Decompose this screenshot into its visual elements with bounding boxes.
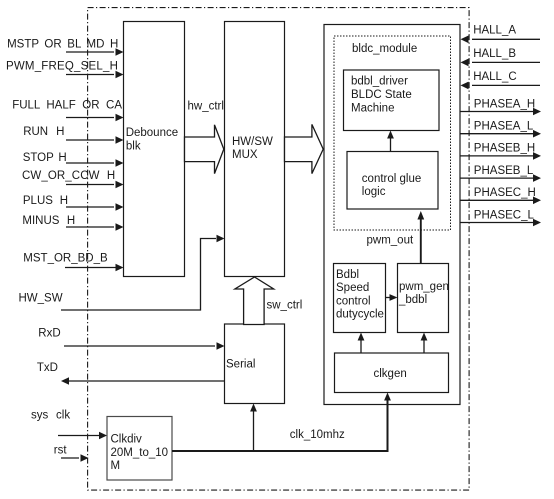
svg-text:PLUS H: PLUS H: [23, 195, 68, 207]
svg-text:MSTP OR BL MD H: MSTP OR BL MD H: [7, 39, 118, 51]
svg-text:STOP H: STOP H: [23, 152, 67, 164]
svg-text:pwm_out: pwm_out: [367, 235, 414, 247]
svg-text:HALL_A: HALL_A: [473, 25, 516, 37]
output PHASEC_H: [461, 187, 542, 204]
svg-text:RUN H: RUN H: [23, 126, 64, 138]
hollow block arrow sw_ctrl (Serial up to MUX): [235, 277, 302, 325]
output HALL_A: [461, 25, 541, 43]
wire clk_10mhz (Clkdiv to clkgen and Serial): [172, 393, 391, 452]
wire Bdbl Speed to pwm_gen: [386, 294, 398, 301]
svg-text:Speed: Speed: [336, 282, 369, 294]
svg-text:HALL_C: HALL_C: [473, 71, 516, 83]
svg-text:logic: logic: [362, 186, 386, 198]
hollow block arrow hw_ctrl (Debounce to MUX): [185, 101, 224, 174]
svg-text:control glue: control glue: [362, 173, 421, 185]
svg-text:PHASEA_H: PHASEA_H: [474, 98, 535, 110]
svg-text:TxD: TxD: [37, 362, 58, 374]
svg-text:sys clk: sys clk: [31, 409, 70, 421]
input CW_OR_CCW H: [22, 170, 124, 188]
input MST_OR_BD_B: [23, 252, 123, 271]
svg-text:CW_OR_CCW H: CW_OR_CCW H: [22, 170, 115, 182]
svg-text:bldc_module: bldc_module: [352, 43, 417, 55]
svg-text:PHASEC_H: PHASEC_H: [474, 187, 536, 199]
block Serial: [225, 324, 285, 404]
svg-text:sw_ctrl: sw_ctrl: [267, 300, 303, 312]
svg-text:PHASEB_H: PHASEB_H: [474, 143, 535, 155]
block control glue logic: [347, 152, 438, 210]
input sys clk: [31, 409, 107, 439]
block HW/SW MUX: [225, 22, 285, 277]
output HALL_C: [461, 71, 541, 89]
svg-text:MST_OR_BD_B: MST_OR_BD_B: [23, 252, 108, 264]
svg-text:hw_ctrl: hw_ctrl: [188, 101, 224, 113]
input MINUS H: [22, 215, 123, 231]
input MSTP OR BL MD H: [7, 39, 123, 56]
svg-text:Debounce: Debounce: [126, 127, 178, 139]
svg-text:HALL_B: HALL_B: [473, 48, 516, 60]
svg-text:PHASEA_L: PHASEA_L: [474, 121, 534, 133]
svg-text:RxD: RxD: [38, 328, 60, 340]
svg-text:clkgen: clkgen: [374, 368, 407, 380]
wire pwm_out (pwm_gen up to control glue): [367, 211, 425, 264]
output PHASEA_L: [461, 121, 542, 138]
svg-text:dutycycle: dutycycle: [336, 309, 384, 321]
output PHASEC_L: [461, 209, 542, 226]
block bdbl_driver BLDC State Machine: [344, 70, 440, 131]
input FULL HALF OR CA: [12, 100, 123, 122]
input rst: [54, 444, 89, 461]
input STOP H: [23, 152, 124, 167]
svg-text:MINUS H: MINUS H: [22, 215, 75, 227]
svg-text:rst: rst: [54, 444, 68, 456]
wire clk to Serial bottom: [250, 404, 257, 452]
block clkgen: [335, 353, 449, 393]
block Clkdiv 20M_to_10M: [107, 417, 172, 481]
svg-text:bdbl_driver: bdbl_driver: [351, 76, 408, 88]
svg-text:pwm_gen: pwm_gen: [399, 281, 449, 293]
wire clkgen to Bdbl Speed: [358, 333, 365, 354]
input PWM_FREQ_SEL_H: [6, 60, 124, 78]
svg-text:FULL HALF OR CA: FULL HALF OR CA: [12, 100, 122, 112]
input PLUS H: [23, 195, 124, 211]
hollow block arrow (MUX to bldc): [285, 124, 324, 173]
input RUN H: [23, 126, 123, 144]
dotted box bldc_module: [334, 36, 451, 230]
svg-text:Bdbl: Bdbl: [336, 269, 359, 281]
block pwm_gen_bdbl: [398, 264, 449, 333]
svg-text:MUX: MUX: [232, 149, 258, 161]
svg-text:20M_to_10: 20M_to_10: [111, 447, 169, 459]
output PHASEA_H: [461, 98, 542, 115]
svg-text:M: M: [111, 460, 121, 472]
svg-text:Machine: Machine: [351, 103, 394, 115]
block Debounce blk: [124, 22, 185, 277]
block bldc outer box: [324, 25, 460, 405]
svg-text:control: control: [336, 295, 371, 307]
svg-text:Clkdiv: Clkdiv: [111, 434, 143, 446]
svg-text:_bdbl: _bdbl: [398, 294, 427, 306]
input HW_SW wire to MUX: [19, 235, 225, 310]
svg-text:BLDC State: BLDC State: [351, 89, 412, 101]
output TxD: [37, 362, 225, 385]
svg-text:clk_10mhz: clk_10mhz: [290, 429, 345, 441]
output PHASEB_H: [461, 143, 542, 160]
svg-text:blk: blk: [126, 141, 141, 153]
svg-text:PWM_FREQ_SEL_H: PWM_FREQ_SEL_H: [6, 60, 118, 72]
svg-text:PHASEB_L: PHASEB_L: [474, 165, 534, 177]
dash-dot chip boundary border: [88, 8, 470, 491]
block Bdbl Speed control dutycycle: [334, 264, 386, 333]
svg-text:PHASEC_L: PHASEC_L: [474, 209, 535, 221]
svg-text:Serial: Serial: [226, 359, 255, 371]
input RxD: [38, 328, 224, 350]
svg-text:HW/SW: HW/SW: [232, 136, 273, 148]
wire clkgen to pwm_gen: [421, 333, 428, 354]
svg-text:HW_SW: HW_SW: [19, 292, 63, 304]
wire control glue to bdbl_driver: [387, 131, 394, 152]
output HALL_B: [461, 48, 541, 66]
output PHASEB_L: [461, 165, 542, 182]
